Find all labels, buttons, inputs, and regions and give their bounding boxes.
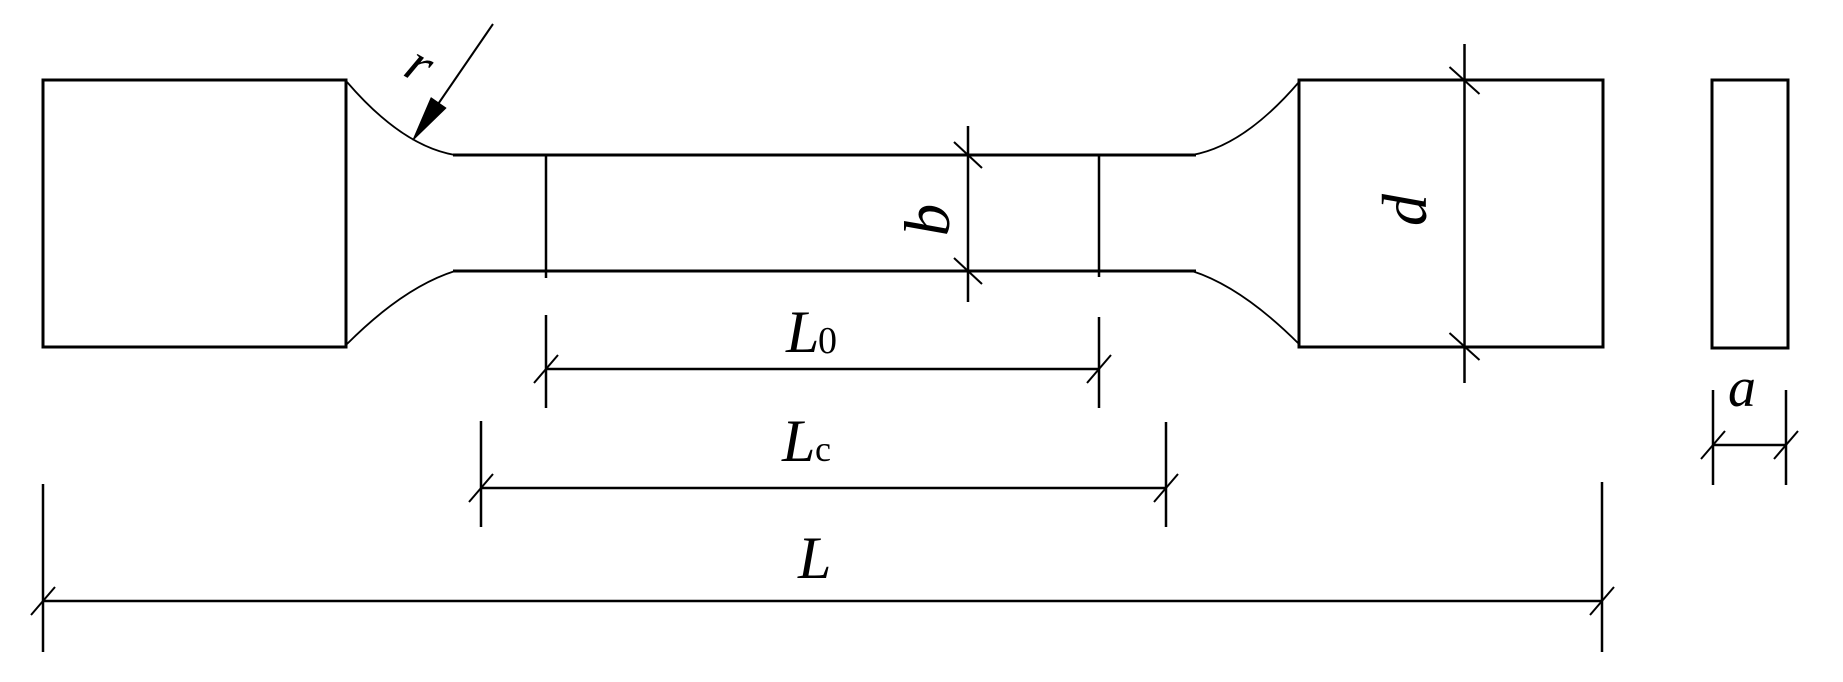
L tick left <box>31 587 55 615</box>
fillet bottom-right <box>1192 271 1299 344</box>
fillet top-left <box>347 82 455 155</box>
a tick right <box>1774 431 1798 459</box>
d dimension line (vertical) <box>1463 44 1466 383</box>
L dimension line <box>43 600 1602 603</box>
svg-text:L: L <box>797 525 831 591</box>
Lc extension line left <box>480 421 483 527</box>
r leader arrowhead <box>413 98 446 140</box>
L0 tick right <box>1087 355 1111 383</box>
fillet bottom-left <box>347 271 455 344</box>
fillet top-right <box>1192 82 1299 155</box>
L0 tick left <box>534 355 558 383</box>
Lc tick right <box>1154 474 1178 502</box>
svg-text:L: L <box>781 408 815 474</box>
L extension line right <box>1601 482 1604 652</box>
b dimension tick bottom <box>954 258 982 284</box>
svg-text:0: 0 <box>818 320 837 362</box>
gauge mark left (L0 boundary on specimen) <box>545 156 548 278</box>
Lc dimension line <box>481 487 1166 490</box>
L0 extension line left <box>545 315 548 408</box>
b dimension tick top <box>954 142 982 168</box>
right grip head rectangle <box>1299 80 1603 347</box>
L extension line left <box>42 484 45 652</box>
left grip head rectangle <box>43 80 346 347</box>
svg-text:b: b <box>892 204 964 237</box>
a extension line left <box>1712 390 1715 485</box>
Lc tick left <box>469 474 493 502</box>
L0 extension line right <box>1098 317 1101 408</box>
gauge mark right (L0 boundary on specimen) <box>1098 156 1101 277</box>
a extension line right <box>1785 390 1788 485</box>
d dimension tick top <box>1450 67 1480 94</box>
L tick right <box>1590 587 1614 615</box>
svg-text:a: a <box>1728 357 1756 419</box>
d dimension tick bottom <box>1450 333 1480 360</box>
a dimension line <box>1713 444 1786 447</box>
svg-text:L: L <box>785 299 819 365</box>
gauge section top edge <box>453 154 1196 157</box>
r leader line <box>434 24 493 110</box>
b dimension line (vertical) <box>967 126 970 302</box>
gauge section bottom edge <box>453 270 1196 273</box>
svg-text:d: d <box>1369 193 1440 226</box>
svg-text:c: c <box>815 429 831 469</box>
a tick left <box>1701 431 1725 459</box>
Lc extension line right <box>1165 422 1168 527</box>
side-view thickness rectangle <box>1712 80 1788 348</box>
L0 dimension line <box>546 368 1099 371</box>
